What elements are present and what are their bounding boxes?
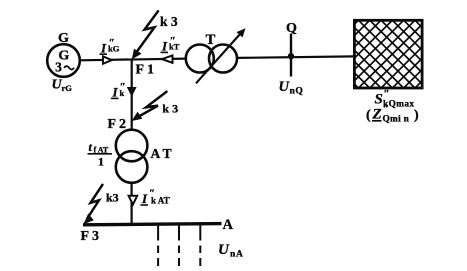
svg-text:I: I xyxy=(100,40,107,55)
svg-text:kG: kG xyxy=(108,44,120,54)
lightning bolt k3 at F2 xyxy=(138,92,167,118)
wire F1 down to AT xyxy=(131,60,133,130)
svg-text:F 3: F 3 xyxy=(81,229,100,244)
transformer T circle 1 xyxy=(186,45,214,73)
feeder stub 3 xyxy=(199,225,201,266)
svg-text:F 2: F 2 xyxy=(108,117,127,132)
svg-text:″: ″ xyxy=(383,103,389,115)
svg-text:I: I xyxy=(161,39,168,54)
lightning bolt k3 at F3 xyxy=(89,185,103,217)
svg-text:F 1: F 1 xyxy=(136,63,155,78)
label I''kT xyxy=(161,35,180,54)
label I''kG xyxy=(100,37,120,56)
svg-text:kT: kT xyxy=(169,42,180,52)
label (Z''Qmin) xyxy=(366,103,419,125)
arrow IkG (open triangle right) xyxy=(103,56,112,63)
svg-text:U: U xyxy=(218,242,230,258)
svg-text:k 3: k 3 xyxy=(162,102,178,116)
wire generator to transformer T xyxy=(81,59,186,61)
svg-text:T: T xyxy=(206,32,216,48)
busbar A xyxy=(83,224,222,225)
svg-text:3: 3 xyxy=(55,60,62,75)
label I''k xyxy=(111,81,126,100)
svg-text:k: k xyxy=(120,88,125,98)
svg-text:I: I xyxy=(112,85,119,100)
autotransformer AT circle 2 xyxy=(116,151,148,183)
arrow I''kAT (open triangle down) xyxy=(129,196,138,205)
svg-text:Q: Q xyxy=(286,21,297,36)
svg-text:k3: k3 xyxy=(106,191,119,205)
svg-text:Qmi n: Qmi n xyxy=(383,115,410,125)
svg-text:S: S xyxy=(375,92,383,108)
node Q junction dot xyxy=(288,53,294,59)
svg-text:G: G xyxy=(58,31,69,46)
svg-text:k AT: k AT xyxy=(151,196,170,206)
svg-text:): ) xyxy=(414,108,419,123)
autotransformer AT circle 1 xyxy=(116,130,148,162)
ratio label t_fAT / 1 xyxy=(88,140,113,169)
svg-text:nA: nA xyxy=(230,249,244,259)
generator G circle xyxy=(47,44,80,77)
svg-text:rG: rG xyxy=(62,83,73,93)
transformer T circle 2 xyxy=(209,45,237,73)
arrow IkT (open triangle left) xyxy=(162,55,173,62)
arrow I''k (filled, down) on F1-AT wire xyxy=(127,87,137,97)
label S''kQmax xyxy=(375,88,415,110)
svg-text:1: 1 xyxy=(98,155,104,169)
wire AT down to busbar A xyxy=(131,183,133,224)
svg-text:k 3: k 3 xyxy=(160,14,178,29)
node Q vertical tick xyxy=(290,34,292,77)
feeder stub 1 xyxy=(157,225,159,266)
transformer tap-changer arrow xyxy=(196,34,241,84)
system source hatched box xyxy=(291,20,467,88)
wire transformer T to system box xyxy=(237,56,354,58)
label I''kAT xyxy=(141,188,170,207)
svg-text:(: ( xyxy=(366,108,371,123)
svg-text:″: ″ xyxy=(384,88,390,100)
svg-text:I: I xyxy=(141,191,148,206)
svg-text:nQ: nQ xyxy=(290,87,304,97)
svg-text:A T: A T xyxy=(151,146,172,161)
svg-text:A: A xyxy=(223,217,234,233)
svg-text:t: t xyxy=(89,140,93,154)
lightning bolt k3 at F1 xyxy=(136,11,158,52)
feeder stub 2 xyxy=(178,225,180,266)
